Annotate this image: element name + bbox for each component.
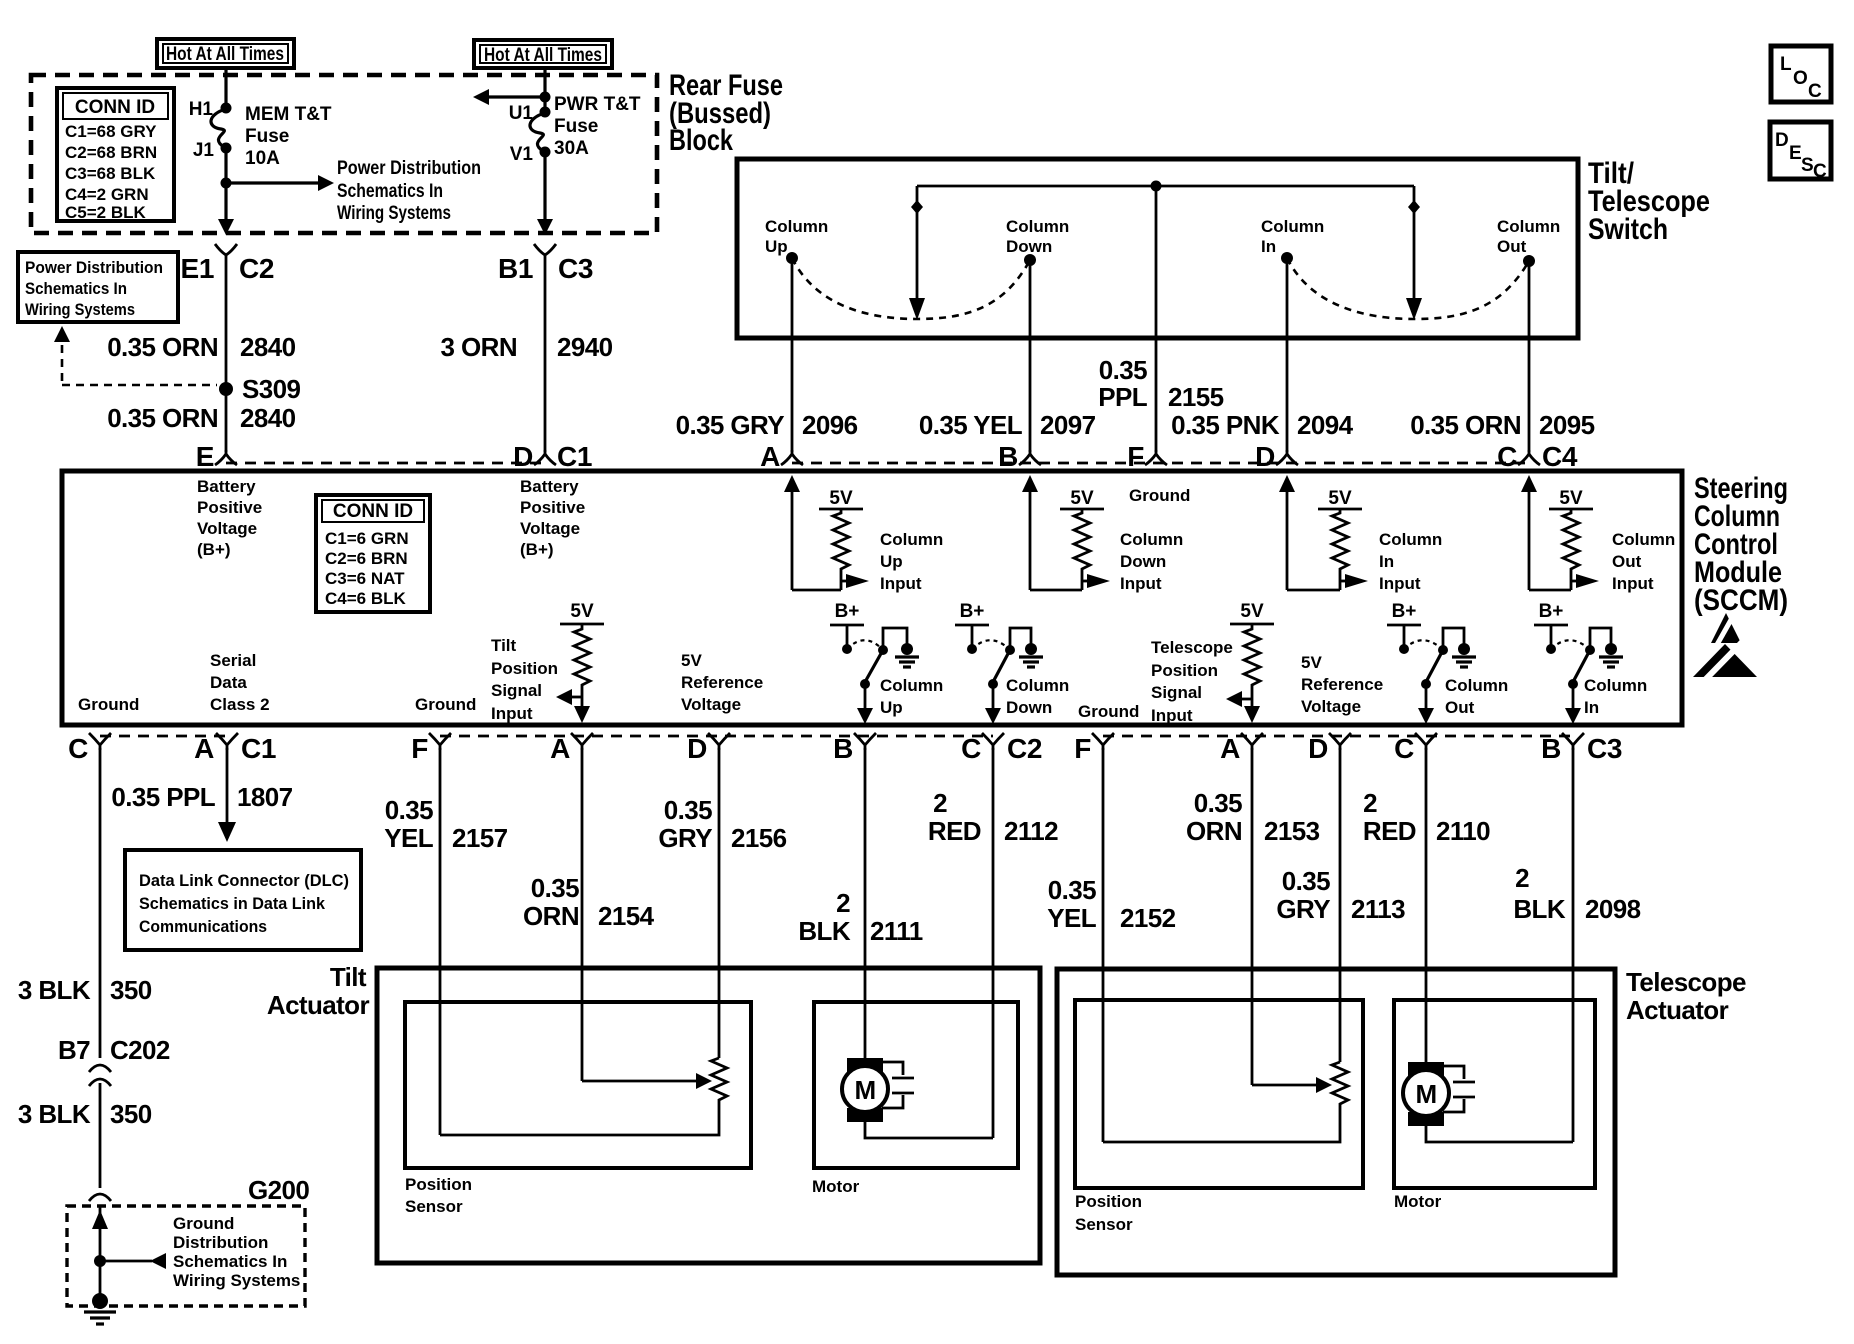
svg-text:C4: C4 [1542, 441, 1578, 472]
svg-text:Up: Up [880, 552, 903, 571]
SCCM top connector dashed line C4 [792, 462, 1529, 465]
wire 2 BLK 2098 [1513, 748, 1640, 1142]
svg-text:2096: 2096 [802, 410, 858, 440]
label Position Sensor (tilt) [405, 1175, 472, 1216]
svg-text:U1: U1 [509, 103, 534, 124]
svg-text:In: In [1584, 698, 1599, 717]
svg-text:Motor: Motor [1394, 1192, 1442, 1211]
svg-text:Hot At All Times: Hot At All Times [166, 44, 284, 65]
wire fuse J1 down to fuse block bottom [224, 148, 227, 222]
svg-text:D: D [513, 441, 533, 472]
svg-text:O: O [1793, 68, 1808, 89]
svg-text:Out: Out [1445, 698, 1475, 717]
svg-text:C2=68 BRN: C2=68 BRN [65, 143, 157, 162]
svg-text:Input: Input [880, 574, 922, 593]
svg-text:Ground: Ground [173, 1214, 234, 1233]
svg-text:2098: 2098 [1585, 894, 1641, 924]
svg-text:Wiring Systems: Wiring Systems [337, 203, 451, 224]
wire 0.35 GRY 2096 [676, 258, 858, 452]
svg-text:A: A [1220, 733, 1240, 764]
svg-text:Switch: Switch [1588, 213, 1668, 246]
svg-text:Telescope: Telescope [1151, 638, 1233, 657]
pin D bottom (telescope 5V ref) [1308, 733, 1351, 764]
svg-text:0.35 ORN: 0.35 ORN [1410, 410, 1521, 440]
svg-text:2: 2 [933, 788, 947, 818]
pin F at SCCM [1127, 441, 1167, 472]
svg-text:ORN: ORN [1186, 816, 1242, 846]
svg-text:0.35: 0.35 [385, 795, 433, 825]
switch common bus wire [917, 185, 1414, 188]
svg-text:Column: Column [1006, 676, 1069, 695]
svg-text:Column: Column [1612, 530, 1675, 549]
svg-text:D: D [1775, 130, 1789, 151]
svg-text:C2: C2 [1007, 733, 1042, 764]
svg-text:C3=68 BLK: C3=68 BLK [65, 164, 156, 183]
pin B bottom (tilt motor up) [833, 733, 876, 764]
svg-text:Actuator: Actuator [1626, 995, 1729, 1025]
svg-text:E1: E1 [181, 253, 214, 284]
SCCM bottom connector dashed line C3 [1103, 735, 1573, 738]
svg-text:Schematics In: Schematics In [173, 1252, 287, 1271]
pin A at SCCM [760, 441, 803, 472]
svg-text:F: F [1074, 733, 1091, 764]
LOC corner box [1771, 46, 1831, 102]
label Position Sensor (telescope) [1075, 1192, 1142, 1234]
svg-text:E: E [196, 441, 214, 472]
svg-text:PWR T&T: PWR T&T [554, 94, 641, 115]
label Battery Positive Voltage (B+) right [520, 477, 585, 559]
box Data Link Connector (DLC) schematics [125, 850, 361, 950]
svg-text:Column: Column [1497, 217, 1560, 236]
svg-text:A: A [550, 733, 570, 764]
telescope sensor wiper arrow [1252, 1077, 1332, 1093]
svg-text:Column: Column [1006, 217, 1069, 236]
svg-text:C1: C1 [241, 733, 276, 764]
svg-text:C2=6 BRN: C2=6 BRN [325, 549, 408, 568]
dashed wiper arc in-out [1287, 258, 1529, 319]
svg-text:Down: Down [1006, 698, 1052, 717]
svg-text:5V: 5V [681, 651, 702, 670]
svg-text:Column: Column [880, 530, 943, 549]
svg-text:0.35 ORN: 0.35 ORN [107, 332, 218, 362]
svg-text:C1=68 GRY: C1=68 GRY [65, 122, 157, 141]
pin D C1 at SCCM [513, 441, 592, 472]
pin E at SCCM [196, 441, 237, 472]
telescope motor box [1394, 1000, 1595, 1188]
svg-text:Column: Column [765, 217, 828, 236]
svg-text:2155: 2155 [1168, 382, 1224, 412]
pin B at SCCM [998, 441, 1041, 472]
column out input pull-up [1521, 475, 1675, 593]
svg-text:F: F [1127, 441, 1144, 472]
svg-text:PPL: PPL [1098, 382, 1147, 412]
svg-text:Schematics In: Schematics In [337, 181, 443, 202]
arrow feed to the left [473, 89, 545, 105]
label Telescope Actuator [1626, 967, 1746, 1025]
tilt sensor low side wire [440, 1104, 719, 1135]
wire 0.35 YEL 2157 [384, 748, 507, 1135]
svg-text:Ground: Ground [1078, 702, 1139, 721]
svg-text:Ground: Ground [415, 695, 476, 714]
label Battery Positive Voltage (B+) left [197, 477, 262, 559]
svg-text:10A: 10A [245, 148, 280, 169]
svg-text:Down: Down [1120, 552, 1166, 571]
svg-text:CONN ID: CONN ID [75, 97, 155, 118]
svg-text:C3: C3 [558, 253, 593, 284]
svg-text:C: C [68, 733, 88, 764]
svg-text:Reference: Reference [681, 673, 763, 692]
svg-text:CONN ID: CONN ID [333, 501, 413, 522]
ground G200 symbol [84, 1293, 116, 1324]
pin A bottom (telescope position signal) [1220, 733, 1263, 764]
svg-text:Column: Column [1379, 530, 1442, 549]
svg-text:BLK: BLK [1513, 894, 1565, 924]
label Steering Column Control Module (SCCM) [1694, 472, 1788, 617]
svg-text:C5=2 BLK: C5=2 BLK [65, 203, 146, 222]
svg-text:Signal: Signal [1151, 683, 1202, 702]
wire 0.35 PNK 2094 [1171, 258, 1354, 452]
svg-text:Tilt: Tilt [330, 962, 367, 992]
svg-text:YEL: YEL [1047, 903, 1096, 933]
svg-text:30A: 30A [554, 138, 589, 159]
label box Hot At All Times (left) [157, 39, 294, 68]
svg-text:Sensor: Sensor [405, 1197, 463, 1216]
svg-text:2840: 2840 [240, 332, 296, 362]
tilt position sensor resistor [711, 1058, 727, 1104]
svg-text:Actuator: Actuator [267, 990, 370, 1020]
svg-text:C: C [1497, 441, 1517, 472]
svg-text:G200: G200 [248, 1175, 309, 1205]
svg-text:Voltage: Voltage [1301, 697, 1361, 716]
wire 0.35 ORN 2153 [1186, 748, 1320, 1085]
svg-text:2094: 2094 [1297, 410, 1354, 440]
svg-text:Tilt: Tilt [491, 636, 517, 655]
svg-text:M: M [1415, 1079, 1436, 1109]
svg-text:C1=6 GRN: C1=6 GRN [325, 529, 409, 548]
tilt actuator box [377, 968, 1040, 1263]
fuse MEM T&T 10A [189, 99, 332, 169]
svg-text:GRY: GRY [658, 823, 712, 853]
pin D bottom (tilt 5V ref) [687, 733, 730, 764]
svg-text:Fuse: Fuse [245, 126, 289, 147]
svg-text:B: B [998, 441, 1018, 472]
tilt sensor wiper arrow [582, 1073, 712, 1089]
svg-text:2840: 2840 [240, 403, 296, 433]
svg-text:350: 350 [110, 1099, 152, 1129]
svg-text:(B+): (B+) [520, 540, 554, 559]
svg-text:A: A [760, 441, 780, 472]
svg-text:Position: Position [1151, 661, 1218, 680]
svg-text:M: M [854, 1075, 875, 1105]
svg-text:0.35: 0.35 [531, 873, 579, 903]
svg-text:Column: Column [880, 676, 943, 695]
telescope sensor low side wire [1103, 1108, 1340, 1142]
SCCM module box [62, 471, 1682, 725]
wire 0.35 PPL 1807 [111, 748, 292, 842]
svg-text:Serial: Serial [210, 651, 256, 670]
svg-text:Data Link Connector (DLC): Data Link Connector (DLC) [139, 871, 349, 890]
svg-text:350: 350 [110, 975, 152, 1005]
svg-text:E: E [1789, 143, 1802, 164]
tilt position signal input resistor [491, 601, 604, 723]
wire 3 BLK 350 (lower) [18, 1083, 152, 1188]
svg-text:H1: H1 [189, 99, 214, 120]
svg-text:0.35: 0.35 [1099, 355, 1147, 385]
pin F bottom (telescope sensor low) [1074, 733, 1114, 764]
svg-text:D: D [1255, 441, 1275, 472]
svg-text:C4=6 BLK: C4=6 BLK [325, 589, 406, 608]
svg-text:0.35 PPL: 0.35 PPL [111, 782, 215, 812]
wire 0.35 PPL 2155 [1098, 186, 1223, 452]
wire from Hot At All Times to fuse H1 [224, 69, 227, 106]
svg-text:(B+): (B+) [197, 540, 231, 559]
svg-text:0.35: 0.35 [1282, 866, 1330, 896]
svg-text:B+: B+ [1392, 601, 1417, 622]
svg-text:1807: 1807 [237, 782, 293, 812]
svg-text:5V: 5V [1070, 488, 1094, 509]
svg-text:Out: Out [1497, 237, 1527, 256]
svg-text:Distribution: Distribution [173, 1233, 268, 1252]
telescope position sensor box [1075, 1000, 1363, 1188]
svg-text:0.35 ORN: 0.35 ORN [107, 403, 218, 433]
label 5V Reference Voltage (tilt) [681, 651, 763, 714]
tilt motor low side wire [865, 1122, 993, 1138]
svg-text:2940: 2940 [557, 332, 613, 362]
ESD sensitivity symbol [1693, 611, 1757, 682]
svg-text:2111: 2111 [870, 916, 923, 946]
svg-text:0.35: 0.35 [664, 795, 712, 825]
junction node on PWR fuse feed [540, 92, 551, 103]
svg-text:Reference: Reference [1301, 675, 1383, 694]
svg-text:C3=6 NAT: C3=6 NAT [325, 569, 405, 588]
svg-text:C: C [961, 733, 981, 764]
svg-text:Hot At All Times: Hot At All Times [484, 45, 602, 66]
svg-text:Battery: Battery [197, 477, 256, 496]
svg-text:C2: C2 [239, 253, 274, 284]
contact Column In [1261, 217, 1324, 264]
svg-text:0.35 PNK: 0.35 PNK [1171, 410, 1280, 440]
splice S309 [219, 374, 300, 404]
wire 3 ORN 2940 [441, 263, 613, 452]
wire 0.35 ORN 2154 [523, 748, 655, 1081]
SCCM bottom connector dashed line C2 [440, 735, 993, 738]
svg-text:S: S [1801, 155, 1814, 176]
svg-text:RED: RED [928, 816, 981, 846]
svg-text:Column: Column [1584, 676, 1647, 695]
svg-text:Input: Input [491, 704, 533, 723]
svg-text:Wiring Systems: Wiring Systems [25, 300, 135, 319]
svg-text:Class 2: Class 2 [210, 695, 270, 714]
wire 0.35 GRY 2156 [658, 748, 786, 1058]
svg-text:MEM T&T: MEM T&T [245, 104, 332, 125]
contact Column Down [1006, 217, 1069, 266]
svg-text:Input: Input [1379, 574, 1421, 593]
svg-text:Voltage: Voltage [520, 519, 580, 538]
svg-text:B1: B1 [498, 253, 533, 284]
CONN ID table (SCCM) [316, 495, 430, 612]
svg-text:C202: C202 [110, 1035, 170, 1065]
svg-text:2110: 2110 [1436, 816, 1490, 846]
svg-text:5V: 5V [829, 488, 853, 509]
box Power Distribution Schematics in Wiring Systems [18, 252, 178, 322]
pin B C3 bottom (telescope motor in) [1541, 733, 1622, 764]
pin C bottom (telescope motor out) [1394, 733, 1437, 764]
fuse PWR T&T 30A [509, 94, 641, 165]
svg-text:Input: Input [1612, 574, 1654, 593]
svg-text:D: D [687, 733, 707, 764]
tilt position sensor box [405, 1002, 751, 1168]
dashed wiper arc up-down [792, 258, 1030, 319]
svg-text:Position: Position [491, 659, 558, 678]
svg-text:A: A [194, 733, 214, 764]
svg-text:2112: 2112 [1004, 816, 1058, 846]
pin C bottom (ground wire) [68, 733, 111, 764]
svg-text:B+: B+ [1539, 601, 1564, 622]
svg-text:BLK: BLK [798, 916, 850, 946]
telescope motor [1403, 1062, 1475, 1126]
svg-text:S309: S309 [242, 374, 300, 404]
svg-text:B: B [1541, 733, 1561, 764]
svg-text:2153: 2153 [1264, 816, 1320, 846]
svg-text:L: L [1780, 54, 1792, 75]
wire 2 RED 2112 [928, 748, 1058, 1138]
column down driver switch [955, 601, 1069, 724]
tilt motor [842, 1058, 914, 1122]
svg-text:Telescope: Telescope [1626, 967, 1746, 997]
wire 0.35 ORN 2840 (lower) [107, 389, 295, 452]
svg-text:5V: 5V [1559, 488, 1583, 509]
column down input pull-up [1022, 475, 1183, 593]
wire fuse V1 down to fuse block bottom [543, 152, 546, 222]
contact Column Out [1497, 217, 1560, 267]
wire from Hot At All Times to fuse U1 [543, 69, 546, 110]
label box Hot At All Times (right) [474, 40, 612, 68]
svg-text:3 ORN: 3 ORN [441, 332, 517, 362]
svg-text:RED: RED [1363, 816, 1416, 846]
svg-text:Signal: Signal [491, 681, 542, 700]
arrow to Power Distribution Schematics [226, 158, 481, 224]
wire 0.35 GRY 2113 [1276, 748, 1405, 1062]
svg-text:Schematics In: Schematics In [25, 279, 127, 298]
wire 0.35 YEL 2097 [919, 260, 1096, 452]
label Tilt Actuator [267, 962, 370, 1020]
svg-text:C: C [1394, 733, 1414, 764]
arrowhead wire C2 into connector [218, 219, 234, 235]
svg-text:5V: 5V [1328, 488, 1352, 509]
svg-text:In: In [1261, 237, 1276, 256]
svg-text:ORN: ORN [523, 901, 579, 931]
SCCM bottom connector dashed line C1 [100, 735, 227, 738]
svg-text:Out: Out [1612, 552, 1642, 571]
svg-text:Sensor: Sensor [1075, 1215, 1133, 1234]
svg-text:B+: B+ [835, 601, 860, 622]
connector B1 C3 [498, 244, 593, 284]
svg-text:Positive: Positive [520, 498, 585, 517]
svg-text:Fuse: Fuse [554, 116, 598, 137]
svg-text:In: In [1379, 552, 1394, 571]
svg-text:2: 2 [836, 888, 850, 918]
svg-text:Block: Block [669, 124, 733, 157]
svg-text:3 BLK: 3 BLK [18, 1099, 91, 1129]
svg-text:Column: Column [1120, 530, 1183, 549]
svg-text:5V: 5V [570, 601, 594, 622]
svg-text:2152: 2152 [1120, 903, 1176, 933]
svg-text:Wiring Systems: Wiring Systems [173, 1271, 300, 1290]
contact Column Up [765, 217, 828, 264]
pin F bottom (tilt sensor low) [411, 733, 451, 764]
label Rear Fuse (Bussed) Block [669, 69, 783, 157]
arrowhead wire C3 into connector [537, 219, 553, 235]
wire 3 BLK 350 (upper) [18, 748, 152, 1058]
wire 2 RED 2110 [1363, 748, 1490, 1062]
svg-text:D: D [1308, 733, 1328, 764]
pin C C2 bottom (tilt motor down) [961, 733, 1042, 764]
label 5V Reference Voltage (telescope) [1301, 653, 1383, 716]
label Serial Data Class 2 [210, 651, 270, 714]
svg-text:2097: 2097 [1040, 410, 1096, 440]
wire 2 BLK 2111 [798, 748, 922, 1058]
rear fuse block dashed box [31, 75, 657, 233]
wire into G200 with up arrow [92, 1206, 108, 1296]
svg-text:V1: V1 [510, 144, 534, 165]
svg-text:C4=2 GRN: C4=2 GRN [65, 185, 149, 204]
svg-text:Power Distribution: Power Distribution [25, 258, 163, 277]
connector into G200 [89, 1194, 111, 1201]
dashed link from S309 to Power Distribution box [54, 326, 217, 385]
column out driver switch [1387, 601, 1508, 724]
svg-text:GRY: GRY [1276, 894, 1330, 924]
tilt telescope switch box [737, 159, 1578, 338]
svg-text:Ground: Ground [78, 695, 139, 714]
svg-text:Up: Up [765, 237, 788, 256]
svg-text:Communications: Communications [139, 917, 267, 936]
telescope actuator box [1057, 969, 1615, 1275]
svg-text:Positive: Positive [197, 498, 262, 517]
svg-text:Down: Down [1006, 237, 1052, 256]
svg-text:Data: Data [210, 673, 247, 692]
SCCM top connector dashed line C1/C2 [226, 462, 545, 465]
svg-text:J1: J1 [193, 140, 215, 161]
svg-text:0.35: 0.35 [1048, 875, 1096, 905]
arrow to ground distribution schematics text [100, 1214, 300, 1290]
svg-text:F: F [411, 733, 428, 764]
svg-text:2156: 2156 [731, 823, 787, 853]
svg-text:2: 2 [1515, 863, 1529, 893]
svg-text:Column: Column [1445, 676, 1508, 695]
svg-text:Voltage: Voltage [197, 519, 257, 538]
svg-text:C: C [1808, 81, 1822, 102]
telescope position sensor resistor [1332, 1062, 1348, 1108]
svg-text:C: C [1813, 161, 1827, 182]
junction node on MEM fuse output [221, 178, 232, 189]
svg-text:5V: 5V [1301, 653, 1322, 672]
svg-text:Input: Input [1151, 706, 1193, 725]
svg-text:2154: 2154 [598, 901, 655, 931]
DESC corner box [1770, 122, 1831, 182]
pin C C4 at SCCM [1497, 441, 1578, 472]
svg-text:Battery: Battery [520, 477, 579, 496]
svg-text:(SCCM): (SCCM) [1694, 584, 1788, 617]
column in input pull-up [1279, 475, 1442, 593]
junction node G200 [94, 1255, 106, 1267]
pin A C1 bottom (serial data) [194, 733, 276, 764]
svg-text:Position: Position [405, 1175, 472, 1194]
svg-text:Schematics in Data Link: Schematics in Data Link [139, 894, 326, 913]
connector E1 C2 [181, 244, 274, 284]
label Tilt/Telescope Switch [1588, 157, 1710, 246]
svg-text:Ground: Ground [1129, 486, 1190, 505]
tilt motor box [814, 1002, 1018, 1168]
